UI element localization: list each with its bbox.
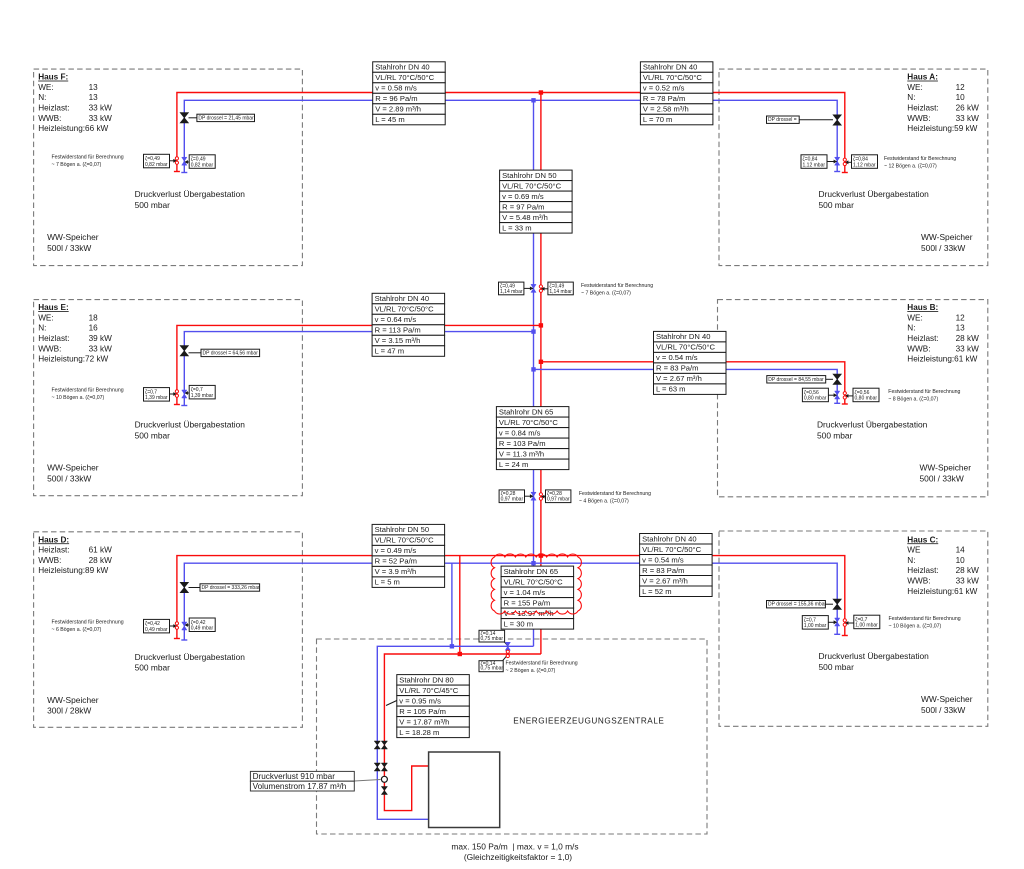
resistance note text Haus C [889, 616, 961, 629]
junction VL trunk row1 [539, 90, 543, 94]
svg-text:500l / 33kW: 500l / 33kW [921, 243, 965, 253]
svg-text:Heizlast:: Heizlast: [38, 104, 69, 113]
svg-text:max. 150 Pa/m | max. v = 1,0: max. 150 Pa/m | max. v = 1,0 m/s [451, 842, 578, 852]
svg-text:33 kW: 33 kW [956, 344, 979, 353]
svg-text:R = 83 Pa/m: R = 83 Pa/m [656, 364, 698, 373]
storage text Haus A [921, 232, 973, 253]
svg-text:L = 5 m: L = 5 m [375, 578, 400, 587]
svg-text:L = 30 m: L = 30 m [504, 619, 533, 628]
svg-text:v = 0.95 m/s: v = 0.95 m/s [399, 696, 441, 705]
resistance note text Haus D [52, 620, 124, 633]
storage text Haus B [920, 463, 972, 484]
svg-text:Heizleistung:72 kW: Heizleistung:72 kW [38, 355, 108, 364]
svg-text:V = 17.87 m³/h: V = 17.87 m³/h [399, 717, 449, 726]
svg-text:Druckverlust Übergabestation: Druckverlust Übergabestation [135, 189, 246, 199]
svg-text:N:: N: [38, 324, 46, 333]
resistance note text Haus B [888, 389, 960, 402]
pipe RL row1 Haus F-A [184, 100, 837, 172]
svg-text:28 kW: 28 kW [956, 334, 979, 343]
fitting marker VL Haus D [175, 622, 178, 630]
pipe VL row2 Haus E [177, 325, 541, 404]
svg-text:28 kW: 28 kW [89, 556, 112, 565]
energy centre outline [317, 639, 708, 834]
svg-text:33 kW: 33 kW [956, 114, 979, 123]
svg-text:WW-Speicher: WW-Speicher [921, 694, 973, 704]
svg-text:Druckverlust Übergabestation: Druckverlust Übergabestation [817, 420, 928, 430]
svg-text:R = 96 Pa/m: R = 96 Pa/m [375, 94, 417, 103]
junction VL trunk row3 [539, 553, 543, 557]
svg-text:~ 4 Bögen a. (ζ=0,07): ~ 4 Bögen a. (ζ=0,07) [579, 498, 629, 504]
svg-text:Druckverlust Übergabestation: Druckverlust Übergabestation [135, 420, 246, 430]
svg-text:DP drossel =: DP drossel = [768, 117, 797, 123]
svg-text:Stahlrohr DN 65: Stahlrohr DN 65 [499, 407, 553, 416]
junction VL trunk row2 right [539, 360, 543, 364]
svg-text:v = 0.52 m/s: v = 0.52 m/s [643, 84, 685, 93]
svg-text:Volumenstrom 17.87 m³/h: Volumenstrom 17.87 m³/h [253, 782, 347, 791]
shutoff valve VL 1 [381, 741, 387, 749]
svg-text:500l / 33kW: 500l / 33kW [920, 473, 964, 483]
svg-text:~ 12 Bögen a. (ζ=0,07): ~ 12 Bögen a. (ζ=0,07) [884, 163, 937, 169]
svg-text:WWB:: WWB: [38, 556, 61, 565]
svg-text:WE: WE [907, 546, 921, 555]
shutoff valve VL 2 [381, 763, 387, 771]
pipe end VL Haus A [842, 172, 848, 174]
fitting marker RL trunk1 [531, 284, 536, 292]
zeta leader left Haus C [828, 620, 837, 624]
svg-text:Heizlast:: Heizlast: [907, 334, 938, 343]
svg-text:v = 0.58 m/s: v = 0.58 m/s [375, 84, 417, 93]
resistance note text trunk1 [581, 283, 653, 296]
zeta leader right Haus F [184, 160, 189, 164]
house label Haus F [38, 73, 112, 134]
resistance note box zeta left Haus F [144, 154, 170, 168]
storage text Haus E [47, 463, 99, 484]
resistance note box zeta left Haus D [144, 619, 170, 633]
svg-text:Festwiderstand für Berechnung: Festwiderstand für Berechnung [506, 661, 578, 667]
svg-text:1,00 mbar: 1,00 mbar [804, 623, 827, 629]
valve RL Haus C [833, 599, 841, 609]
resistance note box zeta centre lower [479, 661, 503, 672]
svg-text:v = 0.84 m/s: v = 0.84 m/s [499, 428, 541, 437]
pipe end RL Haus A [834, 171, 840, 173]
fitting marker VL centre [506, 650, 509, 658]
svg-text:L = 47 m: L = 47 m [375, 347, 404, 356]
pipe label centre DN80 [397, 675, 470, 738]
svg-text:WWB:: WWB: [38, 344, 61, 353]
house label Haus A [907, 73, 979, 134]
house label Haus C [907, 535, 979, 596]
svg-text:13: 13 [89, 93, 99, 102]
svg-text:WW-Speicher: WW-Speicher [47, 232, 99, 242]
svg-text:WWB:: WWB: [38, 114, 61, 123]
fitting marker RL Haus F [182, 157, 187, 165]
fitting marker VL Haus E [175, 390, 178, 398]
house outline Haus E [34, 300, 303, 496]
svg-text:L = 24 m: L = 24 m [499, 460, 528, 469]
svg-text:R = 105 Pa/m: R = 105 Pa/m [399, 707, 446, 716]
valve RL Haus A [833, 115, 841, 125]
zeta leader right Haus D [184, 623, 189, 627]
pipe label trunk DN65 lower [501, 566, 573, 629]
pipe RL row3 Haus D-C [184, 563, 837, 640]
resistance note box zeta left Haus B [802, 388, 828, 402]
svg-text:Heizleistung:59 kW: Heizleistung:59 kW [907, 124, 977, 133]
fitting marker VL Haus A [843, 158, 846, 166]
throttle leader Haus B [826, 378, 833, 380]
svg-text:v = 0.49 m/s: v = 0.49 m/s [375, 546, 417, 555]
svg-text:Festwiderstand für Berechnung: Festwiderstand für Berechnung [888, 389, 960, 395]
svg-text:1,39 mbar: 1,39 mbar [191, 393, 214, 399]
junction RL trunk row2 left [531, 329, 535, 333]
svg-text:N:: N: [907, 93, 915, 102]
svg-text:13: 13 [956, 324, 966, 333]
svg-text:39 kW: 39 kW [89, 334, 112, 343]
svg-text:Druckverlust Übergabestation: Druckverlust Übergabestation [819, 189, 930, 199]
resistance note box zeta right Haus D [189, 618, 215, 632]
resistance note box zeta right Haus C [854, 615, 880, 629]
svg-text:1,12 mbar: 1,12 mbar [853, 162, 876, 168]
svg-text:~ 10 Bögen a. (ζ=0,07): ~ 10 Bögen a. (ζ=0,07) [52, 395, 105, 401]
throttle label box DP Haus C [767, 601, 827, 608]
svg-text:500 mbar: 500 mbar [817, 430, 853, 440]
svg-text:500 mbar: 500 mbar [135, 430, 171, 440]
zeta leader left Haus B [828, 393, 837, 397]
svg-text:500 mbar: 500 mbar [135, 200, 171, 210]
pipe end RL Haus B [834, 402, 840, 404]
svg-text:Heizleistung:66 kW: Heizleistung:66 kW [38, 124, 108, 133]
svg-text:Heizlast:: Heizlast: [907, 566, 938, 575]
resistance note text trunk2 [579, 491, 651, 504]
pipe end RL Haus C [834, 633, 840, 635]
station text Haus C [819, 651, 930, 672]
svg-text:Stahlrohr DN 50: Stahlrohr DN 50 [375, 525, 429, 534]
station text Haus B [817, 420, 928, 441]
house outline Haus C [719, 531, 988, 726]
svg-text:Festwiderstand für Berechnung: Festwiderstand für Berechnung [581, 283, 653, 289]
svg-text:WW-Speicher: WW-Speicher [47, 695, 99, 705]
fitting marker RL Haus B [835, 391, 840, 399]
svg-text:~ 10 Bögen a. (ζ=0,07): ~ 10 Bögen a. (ζ=0,07) [889, 623, 942, 629]
zeta leader left Haus E [170, 392, 177, 396]
svg-text:v = 0.64 m/s: v = 0.64 m/s [375, 315, 417, 324]
svg-text:1,14 mbar: 1,14 mbar [500, 289, 523, 295]
svg-text:500 mbar: 500 mbar [135, 663, 171, 673]
svg-text:28 kW: 28 kW [956, 566, 979, 575]
fitting marker RL trunk2 [531, 492, 536, 500]
throttle leader Haus E [189, 352, 202, 354]
resistance note text Haus A [884, 156, 956, 169]
svg-text:R = 103 Pa/m: R = 103 Pa/m [499, 439, 546, 448]
svg-text:13: 13 [89, 83, 99, 92]
svg-text:V = 5.48 m³/h: V = 5.48 m³/h [502, 213, 548, 222]
svg-text:V = 11.3 m³/h: V = 11.3 m³/h [499, 449, 544, 458]
svg-text:R = 113 Pa/m: R = 113 Pa/m [375, 326, 421, 335]
zeta leader trunk1 left [524, 287, 534, 291]
fitting marker RL Haus A [835, 157, 840, 165]
svg-text:V = 2.89 m³/h: V = 2.89 m³/h [375, 105, 421, 114]
pipe end VL Haus D [174, 638, 180, 640]
svg-text:Stahlrohr DN 40: Stahlrohr DN 40 [375, 294, 429, 303]
zeta leader trunk2 left [525, 494, 534, 498]
resistance note box zeta left Haus E [144, 388, 170, 402]
storage text Haus C [921, 694, 973, 715]
svg-text:12: 12 [956, 83, 966, 92]
svg-text:Haus A:: Haus A: [907, 73, 938, 82]
svg-text:L = 45 m: L = 45 m [375, 115, 404, 124]
svg-text:0,82 mbar: 0,82 mbar [191, 162, 214, 168]
svg-text:500 mbar: 500 mbar [819, 662, 855, 672]
pipe end RL Haus D [181, 639, 187, 641]
pipe label trunk DN50 [500, 170, 572, 233]
valve RL Haus E [180, 346, 188, 356]
svg-text:Stahlrohr DN 80: Stahlrohr DN 80 [399, 675, 453, 684]
svg-text:500l / 33kW: 500l / 33kW [921, 705, 965, 715]
svg-text:33 kW: 33 kW [956, 577, 979, 586]
svg-text:DP drossel = 155,36 mbar: DP drossel = 155,36 mbar [768, 602, 826, 608]
svg-text:10: 10 [956, 93, 966, 102]
pipe VL inside centre to boiler [384, 654, 541, 811]
svg-text:~ 7 Bögen a. (ζ=0,07): ~ 7 Bögen a. (ζ=0,07) [52, 162, 102, 168]
svg-text:33 kW: 33 kW [89, 344, 112, 353]
svg-text:1,39 mbar: 1,39 mbar [145, 395, 168, 401]
svg-text:14: 14 [956, 546, 966, 555]
svg-text:WE:: WE: [38, 313, 53, 322]
resistance note box zeta trunk2 left [499, 490, 524, 503]
resistance note box zeta right Haus F [189, 155, 215, 169]
pipe end VL Haus C [842, 635, 848, 637]
zeta leader centre upper [505, 642, 508, 646]
svg-text:DP drossel = 84,55 mbar: DP drossel = 84,55 mbar [768, 377, 824, 383]
fitting marker VL Haus B [843, 392, 846, 400]
svg-text:0,49 mbar: 0,49 mbar [145, 627, 168, 633]
fitting marker RL Haus E [182, 390, 187, 398]
station text Haus F [135, 189, 246, 210]
svg-text:VL/RL 70°C/50°C: VL/RL 70°C/50°C [375, 305, 434, 314]
pump data leader [354, 780, 380, 782]
svg-text:WE:: WE: [907, 313, 922, 322]
svg-text:Stahlrohr DN 65: Stahlrohr DN 65 [504, 567, 558, 576]
svg-text:0,82 mbar: 0,82 mbar [145, 162, 168, 168]
pipe label trunk DN65 upper [496, 407, 569, 470]
svg-text:R = 52 Pa/m: R = 52 Pa/m [375, 557, 417, 566]
house outline Haus B [718, 300, 988, 497]
svg-text:VL/RL 70°C/50°C: VL/RL 70°C/50°C [656, 343, 715, 352]
pipe RL row2 Haus B [534, 369, 838, 403]
svg-text:N:: N: [38, 93, 46, 102]
shutoff valve VL 3 [381, 787, 387, 795]
house outline Haus A [719, 69, 988, 266]
svg-text:0,97 mbar: 0,97 mbar [547, 497, 570, 503]
station text Haus E [135, 420, 246, 441]
svg-text:0,49 mbar: 0,49 mbar [191, 626, 214, 632]
svg-text:WE:: WE: [907, 83, 922, 92]
junction RL trunk row1 [531, 98, 535, 102]
station text Haus D [135, 652, 246, 673]
fitting marker RL centre [505, 642, 510, 650]
pipe label E-row DN40 [372, 293, 445, 356]
svg-text:Festwiderstand für Berechnung: Festwiderstand für Berechnung [52, 155, 124, 161]
svg-text:WW-Speicher: WW-Speicher [920, 463, 972, 473]
svg-text:1,00 mbar: 1,00 mbar [855, 623, 878, 629]
pipe label C-row DN40 [640, 534, 713, 597]
pipe end VL Haus E [174, 404, 180, 406]
svg-text:V = 2.67 m³/h: V = 2.67 m³/h [656, 374, 702, 383]
throttle label box DP Haus A [767, 116, 800, 123]
svg-text:~ 8 Bögen a. (ζ=0,07): ~ 8 Bögen a. (ζ=0,07) [888, 396, 938, 402]
svg-text:WW-Speicher: WW-Speicher [47, 463, 99, 473]
svg-text:1,14 mbar: 1,14 mbar [549, 289, 572, 295]
svg-text:VL/RL 70°C/45°C: VL/RL 70°C/45°C [399, 686, 458, 695]
valve RL Haus F [180, 113, 188, 123]
pipe label B-row DN40 [654, 331, 727, 394]
throttle leader Haus A [799, 119, 833, 121]
svg-text:V = 3.9 m³/h: V = 3.9 m³/h [375, 567, 417, 576]
svg-text:~ 6 Bögen a. (ζ=0,07): ~ 6 Bögen a. (ζ=0,07) [52, 627, 102, 633]
svg-text:VL/RL 70°C/50°C: VL/RL 70°C/50°C [375, 536, 434, 545]
zeta leader right Haus B [845, 394, 853, 398]
station text Haus A [819, 189, 930, 210]
svg-text:L = 70 m: L = 70 m [643, 115, 672, 124]
svg-text:Heizleistung:89 kW: Heizleistung:89 kW [38, 566, 108, 575]
svg-text:Festwiderstand für Berechnung: Festwiderstand für Berechnung [884, 156, 956, 162]
junction RL centre drop [450, 644, 454, 648]
svg-text:Stahlrohr DN 40: Stahlrohr DN 40 [643, 63, 697, 72]
svg-text:500l / 33kW: 500l / 33kW [47, 243, 91, 253]
valve RL Haus D [180, 582, 188, 592]
pipe VL row1 Haus F-A [177, 93, 845, 173]
svg-text:Heizleistung:61 kW: Heizleistung:61 kW [907, 355, 977, 364]
shutoff valve RL 2 [374, 763, 380, 771]
junction RL trunk row2 right [531, 367, 535, 371]
house label Haus B [907, 303, 979, 364]
pipe label leader DN80 [386, 701, 397, 706]
throttle label box DP Haus F [197, 114, 255, 121]
svg-text:v = 0.69 m/s: v = 0.69 m/s [502, 192, 544, 201]
svg-text:33 kW: 33 kW [89, 104, 112, 113]
pipe VL row2 Haus B [541, 362, 845, 404]
svg-text:Haus D:: Haus D: [38, 535, 69, 544]
svg-text:0,75 mbar: 0,75 mbar [481, 636, 504, 642]
junction VL trunk row2 left [539, 323, 543, 327]
resistance note box zeta trunk1 left [499, 282, 524, 295]
fitting marker RL Haus D [182, 622, 187, 630]
svg-text:v = 0.54 m/s: v = 0.54 m/s [656, 353, 698, 362]
svg-text:~ 7 Bögen a. (ζ=0,07): ~ 7 Bögen a. (ζ=0,07) [581, 290, 631, 296]
pump P1 [381, 776, 387, 782]
svg-text:Festwiderstand für Berechnung: Festwiderstand für Berechnung [52, 388, 124, 394]
svg-text:VL/RL 70°C/50°C: VL/RL 70°C/50°C [502, 181, 561, 190]
svg-text:33 kW: 33 kW [89, 114, 112, 123]
svg-text:L = 33 m: L = 33 m [502, 223, 531, 232]
svg-text:18: 18 [89, 313, 99, 322]
house label Haus D [38, 535, 112, 575]
svg-text:Heizlast:: Heizlast: [38, 334, 69, 343]
svg-text:500l / 33kW: 500l / 33kW [47, 473, 91, 483]
svg-text:Druckverlust 910 mbar: Druckverlust 910 mbar [253, 772, 336, 781]
zeta leader right Haus A [845, 160, 852, 164]
svg-text:v = 0.54 m/s: v = 0.54 m/s [642, 555, 684, 564]
svg-text:Druckverlust Übergabestation: Druckverlust Übergabestation [135, 652, 246, 662]
svg-text:DP drossel = 64,56 mbar: DP drossel = 64,56 mbar [203, 350, 259, 356]
revision cloud [491, 554, 581, 614]
fitting marker RL Haus C [835, 618, 840, 626]
svg-text:Haus B:: Haus B: [907, 303, 938, 312]
svg-text:R = 78 Pa/m: R = 78 Pa/m [643, 94, 685, 103]
throttle label box DP Haus E [201, 349, 260, 356]
pipe end VL Haus B [842, 403, 848, 405]
svg-text:10: 10 [956, 556, 966, 565]
svg-text:12: 12 [956, 313, 966, 322]
svg-text:26 kW: 26 kW [956, 104, 979, 113]
svg-text:0,80 mbar: 0,80 mbar [855, 396, 878, 402]
svg-text:L = 18.28 m: L = 18.28 m [399, 728, 439, 737]
resistance note text Haus F [52, 155, 124, 168]
svg-text:WWB:: WWB: [907, 344, 930, 353]
resistance note text centre [506, 661, 578, 674]
svg-text:Stahlrohr DN 40: Stahlrohr DN 40 [642, 534, 696, 543]
svg-text:Heizleistung:61 kW: Heizleistung:61 kW [907, 587, 977, 596]
resistance note text Haus E [52, 388, 124, 401]
svg-text:0,97 mbar: 0,97 mbar [501, 497, 524, 503]
resistance note box zeta right Haus B [853, 388, 879, 402]
svg-text:DP drossel = 333,26 mbar: DP drossel = 333,26 mbar [202, 585, 260, 591]
boiler [429, 752, 500, 828]
svg-text:N:: N: [907, 556, 915, 565]
throttle leader Haus D [189, 587, 201, 589]
junction RL trunk row3 [531, 561, 535, 565]
svg-text:Stahlrohr DN 40: Stahlrohr DN 40 [656, 332, 710, 341]
svg-text:WW-Speicher: WW-Speicher [921, 232, 973, 242]
pipe VL row3 Haus D-C [177, 556, 845, 639]
zeta leader left Haus A [827, 160, 837, 164]
svg-text:N:: N: [907, 324, 915, 333]
svg-text:Haus E:: Haus E: [38, 303, 68, 312]
svg-text:WE:: WE: [38, 83, 53, 92]
resistance note box zeta trunk2 right [546, 490, 571, 503]
svg-text:1,12 mbar: 1,12 mbar [803, 162, 826, 168]
resistance note box zeta left Haus C [802, 616, 828, 630]
svg-text:~ 2 Bögen a. (ζ=0,07): ~ 2 Bögen a. (ζ=0,07) [506, 668, 556, 674]
svg-text:0,75 mbar: 0,75 mbar [481, 666, 504, 672]
pipe VL drop to centre [459, 556, 461, 654]
svg-text:500 mbar: 500 mbar [819, 200, 855, 210]
fitting marker VL Haus C [843, 619, 846, 627]
resistance note box zeta left Haus A [801, 155, 827, 169]
fitting marker VL Haus F [175, 157, 178, 165]
svg-text:V = 2.58 m³/h: V = 2.58 m³/h [643, 105, 689, 114]
svg-text:300l / 28kW: 300l / 28kW [47, 706, 91, 716]
house outline Haus F [34, 69, 303, 266]
pipe RL trunk [533, 100, 535, 646]
throttle label box DP Haus B [767, 376, 826, 383]
pipe RL row2 Haus E [184, 332, 533, 406]
svg-text:Stahlrohr DN 40: Stahlrohr DN 40 [375, 63, 429, 72]
zeta leader left Haus D [170, 624, 177, 628]
fitting marker VL trunk2 [539, 493, 542, 501]
svg-text:VL/RL 70°C/50°C: VL/RL 70°C/50°C [504, 577, 563, 586]
pipe end RL Haus F [181, 172, 187, 174]
zeta leader right Haus C [845, 621, 854, 625]
resistance note box zeta right Haus A [852, 155, 878, 169]
svg-text:Haus F:: Haus F: [38, 73, 68, 82]
svg-text:Heizlast:: Heizlast: [907, 104, 938, 113]
svg-text:ENERGIEERZEUGUNGSZENTRALE: ENERGIEERZEUGUNGSZENTRALE [513, 717, 664, 726]
pump data box [250, 771, 354, 791]
zeta leader trunk1 right [541, 287, 548, 291]
svg-text:v = 1.04 m/s: v = 1.04 m/s [504, 588, 546, 597]
house outline Haus D [34, 532, 303, 728]
svg-text:Festwiderstand für Berechnung: Festwiderstand für Berechnung [889, 616, 961, 622]
